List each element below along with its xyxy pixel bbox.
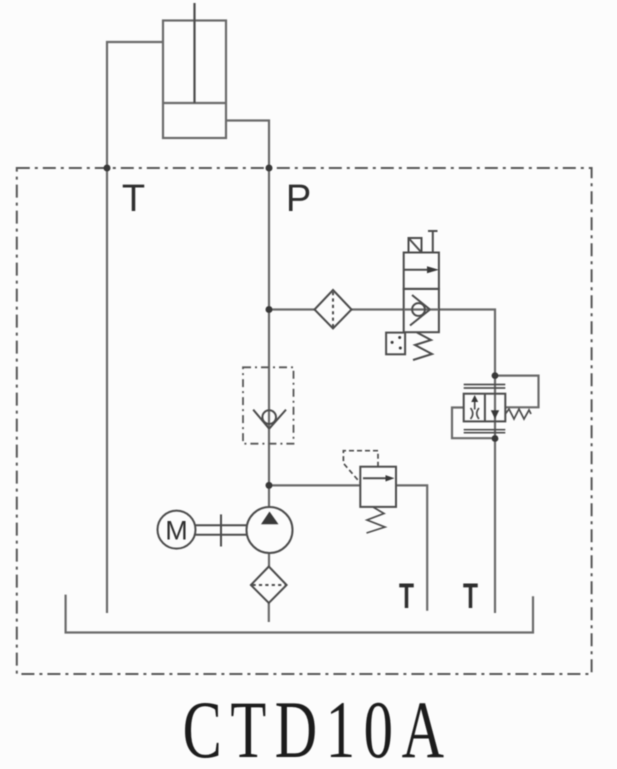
svg-text:M: M	[165, 516, 188, 546]
svg-text:T: T	[399, 577, 414, 616]
svg-text:CTD10A: CTD10A	[183, 684, 453, 769]
svg-text:P: P	[286, 178, 311, 220]
svg-text:T: T	[463, 577, 478, 616]
svg-text:T: T	[122, 178, 145, 220]
